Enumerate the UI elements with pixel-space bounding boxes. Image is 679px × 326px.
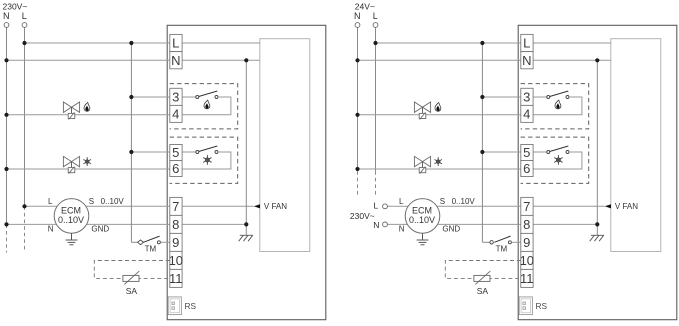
dashed box relay K2 (cooling) [170, 137, 238, 183]
wire L supply dashed continuation [24, 206, 26, 252]
svg-text:7: 7 [172, 199, 179, 214]
svg-text:0..10V: 0..10V [58, 215, 84, 225]
svg-text:RS: RS [536, 301, 548, 311]
earth ground symbol (chassis) [239, 235, 253, 241]
valve Y1 body (bowtie) [414, 102, 430, 112]
valve Y2 body (bowtie) [414, 156, 430, 166]
svg-text:N: N [399, 225, 405, 234]
svg-text:0..10V: 0..10V [101, 197, 125, 206]
wire N supply vertical [357, 27, 359, 171]
terminal 11 [170, 269, 182, 287]
svg-text:9: 9 [523, 235, 530, 250]
dashed box relay K2 (cooling) [521, 137, 589, 183]
valve Y1 actuator box [68, 113, 75, 118]
relay K2 return wire [533, 152, 582, 169]
wire L supply dashed continuation [375, 171, 377, 195]
fan unit box [260, 39, 310, 252]
terminal circle L supply [22, 23, 27, 28]
wire row L to terminal [25, 42, 170, 44]
RS connector pin 1 [523, 302, 526, 305]
svg-text:TM: TM [145, 244, 157, 253]
wire N supply dashed continuation [357, 171, 359, 195]
RS connector outer [519, 297, 532, 315]
svg-text:N: N [3, 11, 10, 21]
svg-text:S: S [440, 197, 445, 206]
svg-text:N: N [373, 220, 379, 230]
wire row N to terminal [7, 59, 170, 61]
wire N feed vertical to earth [596, 60, 598, 235]
svg-text:11: 11 [169, 271, 183, 286]
SA sensor body [474, 275, 490, 281]
SA sensor dashed wiring [445, 261, 521, 279]
wire row L terminal to fan box [533, 42, 611, 44]
relay K2 contact left [196, 151, 199, 154]
terminal 9 [170, 233, 182, 251]
terminal circle N supply [355, 23, 360, 28]
earth ground symbol (chassis) [590, 235, 604, 241]
terminal circle N ECM supply [383, 222, 388, 227]
junction valve Y1 tap [4, 113, 8, 117]
junction N row tap [4, 58, 8, 62]
wire ECM GND to terminal 8 [438, 223, 521, 225]
wire ECM S output to terminal 7 [437, 205, 521, 207]
relay K2 switch blade [550, 146, 569, 152]
svg-text:RS: RS [185, 301, 197, 311]
wire row L terminal to fan box [182, 42, 260, 44]
wire terminal 7 to V FAN arrow [533, 205, 605, 207]
valve Y2 actuator diagonal stroke [69, 167, 75, 174]
terminal 7 [170, 197, 182, 215]
wire L supply vertical [24, 27, 26, 206]
wire row L to terminal [376, 42, 521, 44]
valve Y2 body (bowtie) [63, 156, 79, 166]
relay K1 contact right [215, 96, 218, 99]
valve Y2 actuator box [419, 168, 426, 173]
SA sensor dashed wiring [94, 261, 170, 279]
svg-text:7: 7 [523, 199, 530, 214]
valve Y1 heating (flame) icon [84, 103, 90, 112]
junction N feed tap [595, 58, 599, 62]
wire ECM L input [25, 205, 58, 207]
svg-text:SA: SA [126, 286, 138, 296]
relay K1 heating (flame) icon [555, 100, 561, 109]
svg-text:0..10V: 0..10V [452, 197, 476, 206]
terminal 6 [521, 161, 533, 177]
TM switch right contact [508, 241, 511, 244]
RS connector pin 2 [172, 307, 175, 310]
relay K1 wire from terminal to contact [533, 96, 547, 98]
wire row 6 through cooling valve [358, 168, 521, 170]
ECM earth ground symbol [66, 233, 78, 245]
SA sensor body [123, 275, 139, 281]
valve Y1 actuator diagonal stroke [69, 112, 75, 119]
RS connector inner [521, 299, 530, 313]
svg-text:9: 9 [172, 235, 179, 250]
svg-text:6: 6 [172, 161, 179, 176]
wire row 6 through cooling valve [7, 168, 170, 170]
svg-text:TM: TM [496, 244, 508, 253]
svg-text:3: 3 [523, 90, 530, 105]
TM switch right contact [157, 241, 160, 244]
terminal 6 [170, 161, 182, 177]
terminal 3 [170, 88, 182, 105]
terminal 10 [170, 251, 182, 269]
junction row 3 tap [480, 95, 484, 99]
svg-text:N: N [354, 11, 361, 21]
wire row N terminal to fan box [182, 59, 260, 61]
valve Y1 body (bowtie) [63, 102, 79, 112]
device enclosure box [518, 25, 677, 319]
valve Y2 stem [422, 162, 424, 168]
svg-text:ECM: ECM [412, 206, 432, 216]
wire ECM GND to terminal 8 [87, 223, 170, 225]
wire ECM S output to terminal 7 [86, 205, 170, 207]
junction L row tap [373, 41, 377, 45]
TM switch left contact (diamond) [138, 240, 144, 245]
svg-text:0..10V: 0..10V [409, 215, 435, 225]
svg-text:3: 3 [172, 90, 179, 105]
valve Y2 actuator box [68, 168, 75, 173]
svg-text:L: L [22, 11, 27, 21]
valve Y2 cooling (snowflake) icon [84, 158, 91, 166]
relay K2 wire from terminal to contact [533, 151, 547, 153]
terminal N [521, 52, 533, 69]
svg-text:L: L [373, 11, 378, 21]
junction distribution tap [480, 41, 484, 45]
svg-text:24V~: 24V~ [355, 1, 375, 11]
junction row 3 tap [129, 95, 133, 99]
terminal N [170, 52, 182, 69]
terminal circle N supply [4, 23, 9, 28]
svg-text:N: N [171, 53, 180, 68]
TM switch wire to terminal 9 [160, 241, 169, 243]
svg-text:L: L [48, 197, 53, 206]
svg-text:SA: SA [477, 286, 489, 296]
svg-text:5: 5 [523, 145, 530, 160]
terminal 11 [521, 269, 533, 287]
wire ECM N input [387, 223, 407, 225]
wire row N to terminal [358, 59, 521, 61]
junction N feed tap [244, 58, 248, 62]
SA sensor diagonal stroke [124, 271, 139, 284]
svg-text:230V~: 230V~ [3, 1, 28, 11]
terminal circle L ECM supply [383, 204, 388, 209]
wire row 5 [131, 151, 169, 153]
svg-text:8: 8 [172, 217, 179, 232]
relay K1 contact left [196, 96, 199, 99]
wire N feed vertical to earth [245, 60, 247, 235]
terminal 8 [170, 215, 182, 233]
wire N supply dashed continuation [6, 224, 8, 252]
V FAN arrow [254, 204, 260, 208]
TM switch wire to terminal 9 [511, 241, 520, 243]
terminal 5 [521, 145, 533, 161]
junction N row tap [355, 58, 359, 62]
terminal 5 [170, 145, 182, 161]
relay K2 contact left [547, 151, 550, 154]
svg-text:GND: GND [91, 224, 109, 233]
terminal 7 [521, 197, 533, 215]
junction valve Y2 tap [4, 167, 8, 171]
valve Y2 stem [71, 162, 73, 168]
svg-text:L: L [523, 36, 530, 51]
valve Y1 heating (flame) icon [435, 103, 441, 112]
terminal circle L supply [373, 23, 378, 28]
terminal 8 [521, 215, 533, 233]
TM switch left contact [490, 241, 493, 244]
relay K1 switch blade [199, 91, 218, 97]
ECM earth ground symbol [417, 233, 429, 245]
terminal 3 [521, 88, 533, 105]
relay K2 contact right [566, 151, 569, 154]
junction distribution tap [129, 41, 133, 45]
svg-text:ECM: ECM [61, 206, 81, 216]
terminal L [170, 34, 182, 51]
relay K2 return wire [182, 152, 231, 169]
junction L row tap [22, 41, 26, 45]
SA sensor diagonal stroke [475, 271, 490, 284]
relay K1 heating (flame) icon [204, 100, 210, 109]
relay K1 contact left [547, 96, 550, 99]
svg-text:4: 4 [172, 107, 179, 122]
wire ECM L input [387, 205, 408, 207]
RS connector inner [170, 299, 179, 313]
terminal L [521, 34, 533, 51]
terminal 10 [521, 251, 533, 269]
svg-text:8: 8 [523, 217, 530, 232]
RS connector pin 1 [172, 302, 175, 305]
junction ECM N tap [4, 222, 8, 226]
wire L distribution vertical [130, 43, 132, 242]
wire terminal 7 to V FAN arrow [182, 205, 254, 207]
RS connector pin 2 [523, 307, 526, 310]
junction valve Y2 tap [355, 167, 359, 171]
wire terminal 8 to earth node [533, 223, 597, 225]
V FAN arrow [605, 204, 611, 208]
junction earth node tap [595, 222, 599, 226]
svg-text:10: 10 [169, 253, 183, 268]
svg-text:4: 4 [523, 107, 530, 122]
relay K2 switch blade [199, 146, 218, 152]
svg-text:V FAN: V FAN [264, 202, 287, 211]
svg-text:N: N [522, 53, 531, 68]
wire L supply vertical [375, 27, 377, 171]
wire row 4 through heating valve [358, 114, 521, 116]
relay K2 cooling (snowflake) icon [555, 155, 563, 164]
TM switch blade [143, 236, 159, 242]
wire row N terminal to fan box [533, 59, 611, 61]
valve Y2 cooling (snowflake) icon [435, 158, 442, 166]
fan unit box [611, 39, 661, 252]
junction row 5 tap [129, 150, 133, 154]
TM switch lead [131, 241, 138, 243]
wire ECM N input [7, 223, 57, 225]
ECM motor circle [54, 199, 89, 234]
relay K1 return wire [533, 97, 582, 115]
svg-text:230V~: 230V~ [350, 211, 375, 221]
valve Y2 actuator diagonal stroke [420, 167, 426, 174]
relay K1 switch blade [550, 91, 569, 97]
valve Y1 actuator box [419, 113, 426, 118]
relay K2 cooling (snowflake) icon [204, 155, 212, 164]
TM switch blade [494, 236, 510, 242]
svg-text:GND: GND [442, 224, 460, 233]
valve Y1 stem [71, 107, 73, 113]
svg-text:L: L [374, 200, 379, 210]
relay K2 contact right [215, 151, 218, 154]
dashed box relay K1 (heating) [170, 84, 238, 129]
wire row 5 [482, 151, 520, 153]
svg-text:6: 6 [523, 161, 530, 176]
ECM motor circle [405, 199, 440, 234]
valve Y1 actuator diagonal stroke [420, 112, 426, 119]
svg-text:V FAN: V FAN [615, 202, 638, 211]
wire row 3 [131, 96, 169, 98]
junction valve Y1 tap [355, 113, 359, 117]
svg-text:5: 5 [172, 145, 179, 160]
junction earth node tap [244, 222, 248, 226]
svg-text:10: 10 [520, 253, 534, 268]
junction ECM L tap [22, 204, 26, 208]
wire row 3 [482, 96, 520, 98]
terminal 9 [521, 233, 533, 251]
wire L distribution vertical [481, 43, 483, 242]
relay K1 contact right [566, 96, 569, 99]
svg-text:11: 11 [520, 271, 534, 286]
relay K2 wire from terminal to contact [182, 151, 196, 153]
svg-text:L: L [399, 197, 404, 206]
wire terminal 8 to earth node [182, 223, 246, 225]
dashed box relay K1 (heating) [521, 84, 589, 129]
terminal 4 [170, 105, 182, 122]
svg-text:N: N [48, 225, 54, 234]
wire row 4 through heating valve [7, 114, 170, 116]
valve Y1 stem [422, 107, 424, 113]
terminal 4 [521, 105, 533, 122]
TM switch lead [482, 241, 489, 243]
relay K1 wire from terminal to contact [182, 96, 196, 98]
device enclosure box [167, 25, 326, 319]
junction row 5 tap [480, 150, 484, 154]
svg-text:L: L [172, 36, 179, 51]
wire N supply vertical [6, 27, 8, 224]
RS connector outer [168, 297, 181, 315]
svg-text:S: S [89, 197, 94, 206]
relay K1 return wire [182, 97, 231, 115]
